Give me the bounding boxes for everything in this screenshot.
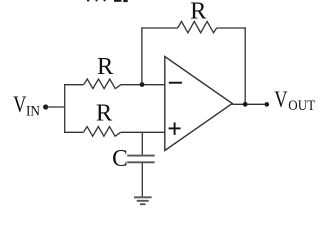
wire resistor to op-amp non-inverting input [121,131,165,133]
wire non-inverting node down to capacitor [141,132,143,155]
node VIN terminal label [13,92,40,120]
node VIN terminal dot [43,104,48,109]
wire branch to resistor R (upper input) [64,84,84,86]
node VOUT terminal label [274,87,315,114]
op-amp non-inverting input plus sign [169,122,181,134]
wire resistor to op-amp inverting input [121,84,165,86]
wire input branch vertical [64,84,66,133]
node VOUT terminal dot [265,102,270,107]
ground symbol [134,197,152,204]
op-amp U1 triangle [165,57,233,151]
cropped text remnants at top edge [87,0,128,2]
resistor R (lower input, non-inverting path) [83,127,120,137]
capacitor C bottom plate [127,161,155,163]
wire feedback top left segment [141,27,177,29]
junction dot output node [243,102,248,107]
svg-text:OUT: OUT [288,98,315,114]
wire feedback top right segment [217,27,246,29]
junction dot inverting input node [140,82,145,87]
svg-text:R: R [96,99,113,126]
svg-text:R: R [190,0,207,24]
capacitor C top plate [127,155,155,157]
svg-text:IN: IN [26,103,40,119]
resistor R (feedback) [178,21,217,32]
wire branch to resistor R (lower input) [64,131,83,133]
op-amp inverting input minus sign [169,82,182,84]
svg-text:C: C [112,145,128,172]
wire feedback right vertical down to output node [244,27,246,104]
wire feedback left vertical (inverting node up) [141,27,143,84]
wire op-amp output to VOUT terminal [232,103,266,105]
svg-text:R: R [97,53,114,80]
wire VIN to branch point [46,106,65,108]
svg-text:V: V [13,92,26,118]
svg-text:V: V [274,87,287,113]
wire capacitor to ground [141,163,143,197]
resistor R (upper input, inverting path) [84,79,121,89]
